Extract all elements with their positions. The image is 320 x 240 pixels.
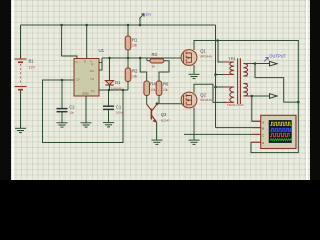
ground Q3 [151, 140, 162, 144]
capacitor C2 [57, 80, 76, 123]
svg-text:R1: R1 [132, 38, 138, 43]
svg-text:10k: 10k [132, 44, 138, 48]
wire VCC riser [86, 25, 88, 59]
battery B1 [15, 59, 36, 90]
wire reset pin jog [62, 25, 77, 59]
wire R4 to Q3 base [146, 96, 148, 104]
wire scope A riser [252, 96, 261, 121]
ground C2 [57, 123, 68, 127]
wire center tap lower [216, 86, 227, 88]
transistor Q1 MOSFET [181, 49, 212, 66]
svg-text:IRFZ44N: IRFZ44N [200, 98, 212, 102]
wire 555 GND pin [85, 96, 87, 123]
ground battery [15, 128, 26, 132]
resistor R4 [144, 81, 156, 96]
oscilloscope [252, 115, 296, 148]
ground C1 [103, 123, 114, 127]
power terminal +12V [139, 12, 151, 25]
transistor Q2 MOSFET [181, 92, 212, 108]
wire Q1 source to ground [193, 65, 195, 74]
resistor R6 [156, 81, 169, 96]
wire scope C line [184, 133, 261, 135]
svg-text:TH: TH [90, 77, 94, 81]
resistor R3 [147, 52, 169, 81]
svg-text:D1: D1 [115, 80, 121, 85]
svg-text:Q1: Q1 [200, 49, 206, 54]
wire Q2 drain to primary bottom [194, 84, 226, 102]
svg-text:10n: 10n [69, 111, 74, 115]
svg-text:1k: 1k [152, 65, 156, 69]
capacitor C1 [103, 90, 123, 122]
svg-text:OUTPUT: OUTPUT [269, 54, 286, 59]
ground 555 [81, 123, 92, 127]
resistor R1 [125, 25, 138, 58]
svg-text:10k: 10k [150, 88, 156, 92]
node TR line junctions [108, 89, 125, 92]
wire 555 output line to Q1 gate [102, 57, 181, 59]
svg-text:Q3: Q3 [161, 112, 167, 117]
wire main +12V drop [216, 25, 262, 128]
svg-text:Q2: Q2 [200, 93, 206, 98]
svg-text:R6: R6 [163, 82, 169, 87]
ground Q2 [189, 140, 200, 144]
wire TR/TH node line [99, 89, 128, 91]
wire DC pin stub [99, 58, 102, 70]
svg-text:TRAN-2P2S: TRAN-2P2S [227, 103, 244, 107]
svg-text:C1: C1 [116, 105, 122, 110]
wire R6 to Q2 gate [157, 96, 183, 104]
svg-text:C2: C2 [69, 105, 75, 110]
wire +12V top rail [21, 24, 216, 26]
svg-text:TR1: TR1 [228, 56, 236, 61]
svg-text:B: B [262, 127, 264, 131]
svg-text:U1: U1 [99, 48, 105, 53]
wire Q2 source to ground [193, 108, 195, 140]
wire secondary top to terminal and sense [252, 64, 298, 103]
wire Q1 drain sense loop to scope D [194, 41, 298, 153]
svg-text:+12v: +12v [143, 12, 152, 17]
terminal OUTPUT arrow 1 [264, 54, 287, 66]
node rail junctions [60, 24, 141, 27]
diode D1 [105, 58, 122, 91]
ground Q1 [189, 74, 200, 78]
svg-text:12V: 12V [29, 66, 36, 70]
resistor R2 [125, 58, 138, 90]
terminal arrow 2 [270, 94, 278, 99]
svg-text:GND: GND [82, 92, 90, 96]
node CV junction [61, 79, 64, 82]
wire R4 riser jog from output line [140, 58, 147, 81]
svg-text:R3: R3 [152, 52, 158, 57]
svg-text:IRFZ44N: IRFZ44N [200, 55, 212, 59]
svg-text:B1: B1 [29, 59, 35, 64]
wire CV loop [43, 80, 124, 143]
transformer TR1 [223, 56, 252, 107]
wire battery negative to ground [20, 91, 22, 129]
wire secondary bottom to terminal [252, 95, 270, 97]
svg-text:A: A [262, 120, 264, 124]
wire battery positive riser [20, 25, 22, 59]
svg-text:10k: 10k [132, 75, 138, 79]
svg-text:100n: 100n [116, 111, 123, 115]
wire center tap upper [216, 74, 227, 76]
svg-text:R2: R2 [132, 69, 138, 74]
wire to primary top [218, 41, 226, 63]
node drop junctions [214, 39, 219, 88]
transistor Q3 [151, 104, 170, 122]
op-amp timer U1 555 [74, 48, 105, 96]
svg-text:R4: R4 [150, 82, 156, 87]
svg-text:BC547: BC547 [161, 119, 171, 123]
node secondary junctions [251, 62, 300, 103]
node output line junctions [108, 57, 141, 60]
svg-text:10k: 10k [163, 88, 169, 92]
node Q2 gate junction [156, 102, 159, 105]
wire Q3 emitter to ground [156, 123, 158, 140]
svg-text:CV: CV [76, 78, 80, 82]
wire Q pin stub [99, 62, 102, 64]
